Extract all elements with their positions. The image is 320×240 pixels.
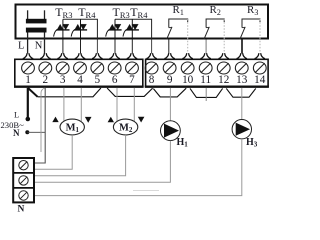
- svg-text:8: 8: [149, 74, 155, 86]
- pump H1: [161, 121, 181, 141]
- wire terminal13 to pump H3: [241, 88, 243, 120]
- cable opening O3: [153, 88, 186, 97]
- terminal 14 screw: [253, 53, 266, 86]
- cable opening O1 (left, thick lead-in): [28, 88, 38, 97]
- terminal 2 wire-entry bell: [40, 53, 50, 58]
- wire triac TR3 to terminal 3: [62, 40, 64, 54]
- N block screw 2: [19, 176, 28, 185]
- arrow down (M2 close): [138, 117, 145, 123]
- transformer T1 primary lead L: [27, 10, 29, 19]
- N block screw 3: [19, 191, 28, 200]
- svg-text:7: 7: [129, 74, 135, 86]
- terminal 13 screw: [235, 53, 248, 86]
- wire terminal7 to M2: [133, 88, 135, 121]
- triac group 2 bracket wire: [115, 19, 152, 39]
- terminal block 8-14: [146, 59, 269, 86]
- transformer T1 winding bar 1: [26, 19, 47, 24]
- terminal 4 screw: [74, 53, 87, 86]
- terminal 7 wire-entry bell: [127, 53, 137, 58]
- svg-text:11: 11: [200, 74, 211, 86]
- wire terminal3 to M1: [63, 88, 65, 121]
- terminal 5 screw: [91, 53, 104, 86]
- transformer T1 primary lead N: [44, 10, 46, 19]
- wire triac group1 return to terminal 5: [96, 40, 98, 54]
- wire triac TR4 to terminal 4: [80, 40, 82, 54]
- terminal 9 wire-entry bell: [164, 53, 174, 58]
- terminal 2 screw: [39, 53, 52, 86]
- terminal 6 screw: [108, 53, 121, 86]
- wire M2 return: [34, 135, 125, 176]
- terminal 13 wire-entry bell: [237, 53, 247, 58]
- terminal 8 wire-entry bell: [146, 53, 156, 58]
- triac group 1 bracket wire: [63, 19, 98, 39]
- triac TR3 symbol (group 1): [54, 19, 70, 39]
- neutral terminal block N: [13, 158, 34, 202]
- terminal 3 screw: [56, 53, 69, 86]
- terminal 11 wire-entry bell: [200, 53, 210, 58]
- triac TR4 symbol (group 2): [123, 19, 139, 39]
- motor M2: [113, 119, 137, 135]
- svg-text:N: N: [35, 40, 43, 51]
- mains L feed wire (thick): [27, 88, 29, 118]
- terminal 11 screw: [199, 53, 212, 86]
- terminal 1 screw: [22, 53, 35, 86]
- relay contact R2: [204, 4, 224, 53]
- wire terminal2 to N block: [34, 88, 45, 163]
- faint artifact dash: [133, 190, 159, 192]
- pump H3: [232, 120, 251, 139]
- svg-text:L: L: [18, 40, 24, 51]
- wire triac group2 return to terminal 8: [151, 40, 153, 54]
- terminal 5 wire-entry bell: [92, 53, 102, 58]
- wire terminal11 stub: [205, 88, 207, 101]
- svg-text:N: N: [13, 128, 20, 138]
- svg-text:9: 9: [167, 74, 173, 86]
- terminal 3 wire-entry bell: [57, 53, 67, 58]
- svg-text:N: N: [18, 204, 25, 214]
- wire terminal6 to M2: [116, 88, 118, 121]
- component box (top enclosure): [16, 5, 269, 39]
- terminal block 1-7 thick bottom edge: [14, 85, 144, 87]
- terminal 10 wire-entry bell: [182, 53, 192, 58]
- svg-text:10: 10: [182, 74, 194, 86]
- terminal 6 wire-entry bell: [109, 53, 119, 58]
- svg-text:1: 1: [25, 74, 31, 86]
- terminal 7 screw: [126, 53, 139, 86]
- terminal 14 wire-entry bell: [255, 53, 265, 58]
- wire H3 return: [34, 139, 242, 196]
- svg-text:5: 5: [95, 74, 101, 86]
- terminal block 1-7: [15, 59, 143, 86]
- terminal 10 screw: [181, 53, 194, 86]
- cable opening O4: [190, 88, 223, 97]
- relay contact R1: [167, 4, 188, 53]
- wire H1 return: [34, 141, 170, 183]
- wire triac group2 TR4 to terminal 7: [131, 40, 133, 54]
- arrow up (M1 open): [52, 117, 58, 123]
- triac TR3 symbol (group 2): [106, 19, 122, 39]
- wire M1 return: [34, 135, 72, 169]
- terminal 12 screw: [217, 53, 230, 86]
- transformer T1 winding bar 2: [26, 28, 47, 33]
- wire triac group2 TR3 to terminal 6: [114, 40, 116, 54]
- cable opening O2: [107, 88, 153, 96]
- svg-text:L: L: [14, 110, 19, 120]
- wire terminal4 to M1: [80, 88, 82, 121]
- triac TR4 symbol (group 1): [71, 19, 87, 39]
- wire terminal9 to pump H1: [169, 88, 171, 121]
- cable opening O5: [226, 88, 256, 97]
- junction dot N: [25, 130, 29, 134]
- motor M1: [60, 119, 84, 135]
- svg-text:3: 3: [60, 74, 66, 86]
- junction dot L: [26, 117, 31, 122]
- arrow down (M1 close): [85, 117, 92, 123]
- wire N feed twin: [41, 88, 45, 152]
- svg-text:14: 14: [254, 74, 266, 86]
- relay contact R3: [240, 4, 260, 53]
- arrow up (M2 open): [108, 117, 114, 123]
- terminal block 8-14 thick bottom edge: [145, 85, 269, 87]
- wire N junction link: [27, 131, 45, 133]
- terminal 9 screw: [163, 53, 176, 86]
- svg-text:4: 4: [77, 74, 83, 86]
- N block screw 1: [19, 161, 28, 201]
- svg-text:6: 6: [112, 74, 118, 86]
- terminal 1 wire-entry bell: [23, 53, 33, 58]
- terminal 8 screw: [145, 53, 158, 86]
- svg-text:13: 13: [236, 74, 248, 86]
- svg-text:12: 12: [218, 74, 229, 86]
- terminal 12 wire-entry bell: [219, 53, 229, 58]
- svg-text:2: 2: [43, 74, 49, 86]
- terminal 4 wire-entry bell: [75, 53, 85, 58]
